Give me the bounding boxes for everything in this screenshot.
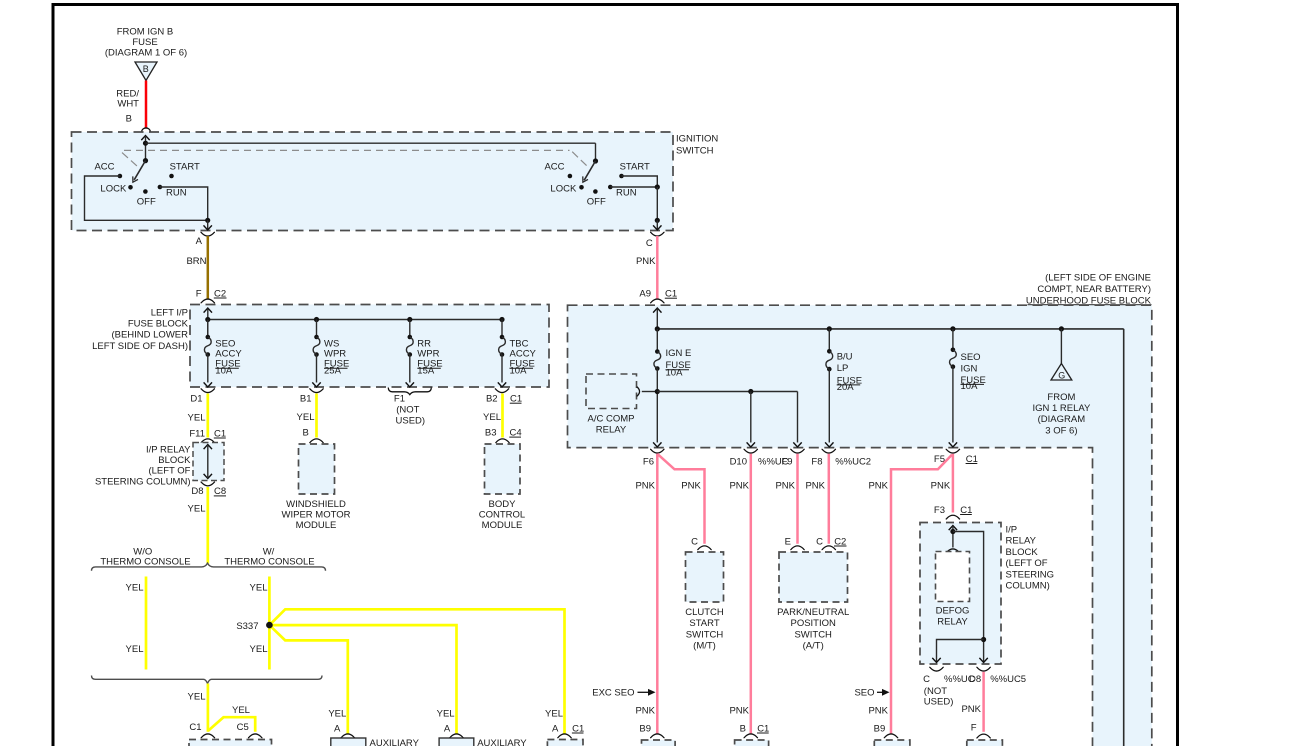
wire YEL from B2 to body control module — [483, 394, 502, 438]
bottom module with pins C1 C5 — [189, 740, 272, 751]
svg-text:RELAY: RELAY — [1006, 536, 1037, 547]
park/neutral position switch (A/T) — [777, 552, 849, 652]
windshield wiper motor module — [282, 444, 351, 531]
svg-text:YEL: YEL — [232, 705, 250, 716]
label EXC SEO arrow — [592, 688, 655, 699]
svg-text:LOCK: LOCK — [100, 183, 127, 194]
svg-text:RELAY: RELAY — [937, 617, 968, 628]
svg-text:PNK: PNK — [868, 705, 888, 716]
wire PNK branch from F5 to bottom module B9 (SEO) — [868, 455, 951, 734]
svg-text:C: C — [646, 238, 653, 249]
ignition switch left half contacts and lever — [94, 158, 200, 207]
svg-text:(DIAGRAM: (DIAGRAM — [1038, 414, 1086, 425]
svg-text:EXC SEO: EXC SEO — [592, 688, 634, 699]
connector D8 C8 below I/P relay block — [191, 482, 226, 497]
wire F entry arrow into fuse block — [204, 308, 212, 337]
wire F3 entry into I/P relay block — [949, 526, 957, 548]
wire YEL branch to connector C5 — [208, 705, 255, 732]
svg-text:FUSE BLOCK: FUSE BLOCK — [128, 319, 189, 330]
svg-text:10A: 10A — [510, 365, 528, 376]
svg-text:PNK: PNK — [729, 480, 749, 491]
connector A9 C1 at underhood fuse block — [639, 289, 677, 304]
svg-text:RUN: RUN — [616, 188, 637, 199]
svg-text:C1: C1 — [189, 722, 201, 733]
bottom module EXC SEO (dashed) — [642, 740, 676, 751]
svg-text:SWITCH: SWITCH — [686, 629, 724, 640]
svg-text:CLUTCH: CLUTCH — [685, 607, 724, 618]
clutch start switch (M/T) — [685, 552, 724, 652]
connector pin D1 — [190, 389, 215, 405]
connector E at park/neutral position switch — [785, 536, 805, 550]
svg-text:BODY: BODY — [489, 499, 517, 510]
svg-text:PNK: PNK — [681, 480, 701, 491]
svg-text:D1: D1 — [190, 394, 202, 405]
svg-text:I/P: I/P — [1006, 525, 1018, 536]
svg-text:STEERING COLUMN): STEERING COLUMN) — [95, 476, 191, 487]
wire PNK from %%UC F9 to park/neutral switch E — [775, 454, 797, 544]
wire START contact to output C (right switch) — [622, 176, 658, 187]
svg-text:PNK: PNK — [636, 256, 656, 267]
svg-text:C: C — [691, 536, 698, 547]
svg-text:LEFT SIDE OF DASH): LEFT SIDE OF DASH) — [92, 341, 188, 352]
svg-text:A: A — [196, 236, 203, 247]
svg-text:B: B — [302, 427, 308, 438]
splice S337 — [236, 621, 272, 632]
svg-text:YEL: YEL — [297, 412, 315, 423]
svg-text:(NOT: (NOT — [396, 405, 419, 416]
connector pin %%UC F9 — [758, 449, 805, 467]
svg-text:STEERING: STEERING — [1006, 569, 1055, 580]
svg-text:3 OF 6): 3 OF 6) — [1045, 425, 1077, 436]
I/P relay block pass-through — [95, 443, 224, 488]
svg-text:C: C — [816, 536, 823, 547]
svg-text:CONTROL: CONTROL — [479, 510, 525, 521]
svg-text:OFF: OFF — [587, 196, 606, 207]
underhood fuse block (left side of engine compt, near battery) — [568, 272, 1152, 747]
wire YEL splice S337 lower branch to auxiliary module — [271, 626, 348, 734]
label %%UC2 — [835, 456, 871, 467]
brace merge below thermo console branches — [92, 676, 323, 684]
svg-text:(DIAGRAM 1 OF 6): (DIAGRAM 1 OF 6) — [105, 47, 187, 58]
svg-text:PNK: PNK — [635, 480, 655, 491]
connector pin B2 C1 — [486, 389, 522, 405]
svg-text:B1: B1 — [300, 394, 312, 405]
wire output A exit arrow — [204, 220, 212, 230]
wire ACC contact to output A (left switch) — [85, 176, 208, 220]
svg-text:B/U: B/U — [837, 351, 853, 362]
connector C C2 at park/neutral position switch — [816, 536, 846, 550]
svg-text:20A: 20A — [837, 382, 855, 393]
connector F3 C1 at I/P relay block — [934, 505, 973, 519]
ignition switch mechanical linkage (dashed) — [122, 150, 587, 166]
wire BRN from ignition switch A to left I/P fuse block F — [186, 236, 207, 299]
connector B9 at bottom module (SEO) — [874, 723, 899, 738]
wire RUN contact to output C (right switch) — [610, 186, 657, 188]
svg-text:BLOCK: BLOCK — [1006, 547, 1039, 558]
ignition switch right half contacts and lever — [544, 143, 650, 207]
svg-text:%%UC2: %%UC2 — [835, 456, 871, 467]
svg-text:PARK/NEUTRAL: PARK/NEUTRAL — [777, 607, 849, 618]
wire YEL from D8 down to thermo console branch — [188, 487, 208, 564]
connector pin F8 — [811, 449, 836, 467]
svg-text:10A: 10A — [961, 381, 979, 392]
left I/P fuse block — [92, 305, 549, 388]
svg-text:YEL: YEL — [126, 644, 144, 655]
wire A/C comp relay to IGN E fuse output junction — [642, 389, 660, 394]
svg-text:ACC: ACC — [94, 162, 114, 173]
connector pin C of ignition switch — [646, 232, 665, 249]
svg-text:SEO: SEO — [961, 352, 981, 363]
svg-text:D8: D8 — [969, 674, 981, 685]
svg-text:SEO: SEO — [854, 688, 874, 699]
wire from F3 node to defog relay output leg — [953, 532, 988, 663]
body control module — [479, 444, 525, 531]
svg-text:AUXILIARY: AUXILIARY — [477, 738, 527, 746]
fuse B/U LP FUSE 20A — [825, 329, 862, 447]
svg-text:MODULE: MODULE — [296, 520, 337, 531]
node B junction left switch — [143, 141, 148, 146]
svg-text:START: START — [620, 162, 650, 173]
svg-text:10A: 10A — [215, 365, 233, 376]
svg-text:B9: B9 — [874, 723, 886, 734]
fuse SEO IGN FUSE 10A — [949, 329, 986, 447]
bottom module F (dashed) — [967, 740, 1003, 751]
svg-text:PNK: PNK — [775, 480, 795, 491]
wire PNK from F6 to bottom module B9 (EXC SEO) — [635, 454, 657, 734]
connector pin A of ignition switch — [196, 232, 215, 247]
wire defog relay left output leg — [932, 640, 983, 663]
svg-text:BLOCK: BLOCK — [158, 455, 191, 466]
wire pin B entry into left ignition switch half — [141, 136, 149, 161]
svg-text:A: A — [552, 723, 559, 734]
svg-text:IGN 1 RELAY: IGN 1 RELAY — [1032, 403, 1091, 414]
svg-text:YEL: YEL — [250, 582, 268, 593]
bus wire inside underhood fuse block — [655, 326, 1124, 746]
connector cap at ignition switch pin B — [142, 128, 151, 132]
svg-text:YEL: YEL — [188, 413, 206, 424]
connector F C2 at left I/P fuse block — [196, 288, 227, 303]
third module (dashed) — [547, 740, 583, 751]
wire PNK from ignition switch C to underhood fuse block A9 — [636, 236, 657, 299]
svg-text:YEL: YEL — [188, 691, 206, 702]
wire RUN contact to output A (left switch) — [160, 187, 208, 220]
wire YEL splice S337 middle branch to auxiliary module — [269, 625, 456, 734]
I/P relay block (left of steering column) — [920, 523, 1054, 665]
fuse WS WPR FUSE 25A — [312, 320, 349, 388]
connector C1 at bottom module — [189, 722, 215, 738]
bottom module SEO B9 (dashed) — [874, 740, 910, 751]
svg-text:LP: LP — [837, 363, 849, 374]
svg-text:B9: B9 — [639, 723, 651, 734]
pin F1 not used brace — [388, 388, 431, 427]
svg-text:YEL: YEL — [483, 412, 501, 423]
ignition switch block — [72, 132, 719, 231]
svg-text:PNK: PNK — [805, 480, 825, 491]
wire YEL splice S337 upper branch to auxiliary connector A C1 — [271, 609, 565, 734]
svg-text:YEL: YEL — [437, 708, 455, 719]
svg-text:B2: B2 — [486, 394, 498, 405]
svg-text:(A/T): (A/T) — [803, 641, 824, 652]
fuse TBC ACCY FUSE 10A — [498, 320, 537, 388]
svg-text:LOCK: LOCK — [550, 183, 577, 194]
connector pin B1 — [300, 389, 324, 405]
svg-text:F: F — [971, 722, 977, 733]
svg-text:MODULE: MODULE — [482, 520, 523, 531]
svg-text:YEL: YEL — [328, 708, 346, 719]
connector B3 C4 at body control module — [485, 427, 522, 442]
svg-text:S337: S337 — [236, 621, 258, 632]
svg-text:USED): USED) — [924, 697, 954, 708]
svg-text:C: C — [923, 674, 930, 685]
wire PNK from F8 to park/neutral switch C — [805, 454, 828, 544]
svg-text:PNK: PNK — [868, 480, 888, 491]
wire junction to D10 and %%UC F9 outputs — [657, 389, 801, 447]
wire RED/WHT from triangle B to ignition switch — [116, 81, 146, 129]
svg-text:F11: F11 — [189, 428, 205, 439]
svg-text:PNK: PNK — [961, 704, 981, 715]
svg-text:(LEFT OF: (LEFT OF — [1006, 558, 1048, 569]
svg-text:RUN: RUN — [166, 188, 187, 199]
svg-text:YEL: YEL — [545, 708, 563, 719]
wire PNK branch from F6 to clutch start switch C — [657, 454, 704, 544]
svg-text:SWITCH: SWITCH — [794, 629, 832, 640]
first auxiliary module — [331, 738, 420, 751]
svg-text:(LEFT SIDE OF ENGINE: (LEFT SIDE OF ENGINE — [1045, 272, 1151, 283]
fuse RR WPR FUSE 15A — [406, 320, 443, 388]
svg-text:THERMO CONSOLE: THERMO CONSOLE — [224, 556, 314, 567]
wire PNK from defog relay to bottom module F — [961, 672, 983, 732]
svg-text:D8: D8 — [191, 486, 203, 497]
node output A junction — [205, 218, 210, 223]
svg-text:A9: A9 — [639, 289, 651, 300]
svg-text:YEL: YEL — [250, 644, 268, 655]
wire YEL to third module pin A C1 — [545, 708, 584, 738]
svg-text:D10: D10 — [730, 456, 747, 467]
label SEO arrow — [854, 688, 889, 699]
svg-text:IGN E: IGN E — [666, 348, 692, 359]
defog relay — [936, 549, 970, 628]
wire YEL from B1 to windshield wiper motor module — [297, 394, 317, 438]
connector pin D10 — [730, 449, 758, 467]
wire YEL to first auxiliary module pin A — [328, 708, 355, 738]
svg-text:FROM: FROM — [1047, 392, 1075, 403]
connector pin F6 — [643, 449, 665, 467]
connector pin F5 C1 — [934, 449, 978, 465]
connector C at clutch start switch — [691, 536, 712, 550]
svg-text:A: A — [334, 723, 341, 734]
svg-text:B: B — [143, 64, 149, 74]
svg-text:F1: F1 — [394, 394, 405, 405]
svg-text:RELAY: RELAY — [596, 424, 627, 435]
connector F11 C1 at I/P relay block — [189, 428, 226, 443]
connector pin B windshield wiper — [302, 427, 323, 442]
svg-text:POSITION: POSITION — [790, 618, 836, 629]
wire YEL to second auxiliary module pin A — [437, 708, 464, 738]
svg-text:PNK: PNK — [635, 705, 655, 716]
svg-text:START: START — [170, 162, 200, 173]
svg-text:BRN: BRN — [186, 256, 206, 267]
svg-text:10A: 10A — [666, 367, 684, 378]
connector %%UC5 — [976, 667, 1026, 685]
svg-text:SWITCH: SWITCH — [676, 145, 714, 156]
svg-text:B3: B3 — [485, 427, 497, 438]
svg-text:YEL: YEL — [126, 582, 144, 593]
svg-text:COLUMN): COLUMN) — [1006, 581, 1050, 592]
wire YEL w/ thermo console branch — [250, 577, 270, 670]
brace W/O thermo console / W/ thermo console split — [92, 547, 326, 571]
svg-text:COMPT, NEAR BATTERY): COMPT, NEAR BATTERY) — [1037, 284, 1151, 295]
fuse IGN E FUSE 10A — [653, 329, 691, 447]
svg-text:%%UC5: %%UC5 — [990, 674, 1026, 685]
svg-text:15A: 15A — [417, 365, 435, 376]
bottom module B C1 (dashed) — [735, 740, 769, 751]
power source triangle G (FROM IGN 1 RELAY, DIAGRAM 3 OF 6) — [1032, 329, 1091, 437]
connector B C1 at bottom module — [740, 723, 770, 738]
svg-text:OFF: OFF — [137, 196, 156, 207]
svg-text:E: E — [785, 536, 791, 547]
node right switch junction — [655, 184, 660, 189]
wire A9 entry arrow into underhood fuse block — [653, 308, 661, 329]
svg-text:F9: F9 — [782, 456, 793, 467]
wire linking left and right switch halves — [146, 142, 596, 144]
second auxiliary module — [439, 738, 527, 751]
svg-text:IGNITION: IGNITION — [676, 134, 718, 145]
svg-text:G: G — [1058, 370, 1065, 380]
svg-text:WIPER MOTOR: WIPER MOTOR — [282, 510, 351, 521]
wire output C exit arrow — [653, 187, 661, 230]
A/C comp relay — [586, 374, 640, 435]
svg-text:USED): USED) — [396, 416, 426, 427]
svg-text:AUXILIARY: AUXILIARY — [370, 738, 420, 746]
svg-text:PNK: PNK — [729, 705, 749, 716]
svg-text:A: A — [444, 723, 451, 734]
svg-text:F: F — [196, 288, 202, 299]
wire PNK from F5 to I/P relay block F3 — [931, 454, 953, 513]
svg-text:F3: F3 — [934, 505, 945, 516]
connector B9 at bottom module (EXC SEO) — [639, 723, 664, 738]
bus wire inside left I/P fuse block — [205, 317, 504, 322]
svg-text:A/C COMP: A/C COMP — [588, 413, 635, 424]
svg-text:WINDSHIELD: WINDSHIELD — [286, 499, 346, 510]
svg-text:YEL: YEL — [188, 504, 206, 515]
svg-text:I/P RELAY: I/P RELAY — [146, 445, 191, 456]
wire YEL w/o thermo console branch — [126, 577, 146, 670]
svg-text:IGN: IGN — [961, 364, 978, 375]
wire YEL from D1 to I/P relay block F11 — [188, 394, 208, 438]
connector C %%UC D8 (not used) — [923, 667, 981, 707]
svg-text:25A: 25A — [324, 365, 342, 376]
wire PNK from D10 to bottom module B C1 — [729, 454, 750, 734]
wire YEL from merge brace to connector C1 — [188, 684, 208, 732]
svg-text:B: B — [740, 723, 746, 734]
svg-text:THERMO CONSOLE: THERMO CONSOLE — [100, 556, 190, 567]
svg-text:(M/T): (M/T) — [693, 641, 716, 652]
svg-text:START: START — [689, 618, 719, 629]
svg-text:ACC: ACC — [544, 162, 564, 173]
connector C5 at bottom module — [237, 722, 263, 738]
svg-text:F6: F6 — [643, 456, 654, 467]
svg-text:PNK: PNK — [931, 480, 951, 491]
svg-text:DEFOG: DEFOG — [936, 605, 970, 616]
svg-text:WHT: WHT — [117, 99, 139, 110]
power source triangle B (FROM IGN B FUSE, DIAGRAM 1 OF 6) — [105, 27, 187, 81]
svg-text:F8: F8 — [811, 456, 822, 467]
fuse SEO ACCY FUSE 10A — [204, 320, 243, 388]
svg-text:FUSE: FUSE — [132, 37, 157, 48]
connector F at bottom module — [971, 722, 991, 738]
svg-text:LEFT I/P: LEFT I/P — [151, 308, 188, 319]
svg-text:B: B — [126, 114, 132, 125]
svg-text:C5: C5 — [237, 722, 249, 733]
svg-text:(LEFT OF: (LEFT OF — [148, 466, 190, 477]
svg-text:(BEHIND LOWER: (BEHIND LOWER — [111, 330, 188, 341]
